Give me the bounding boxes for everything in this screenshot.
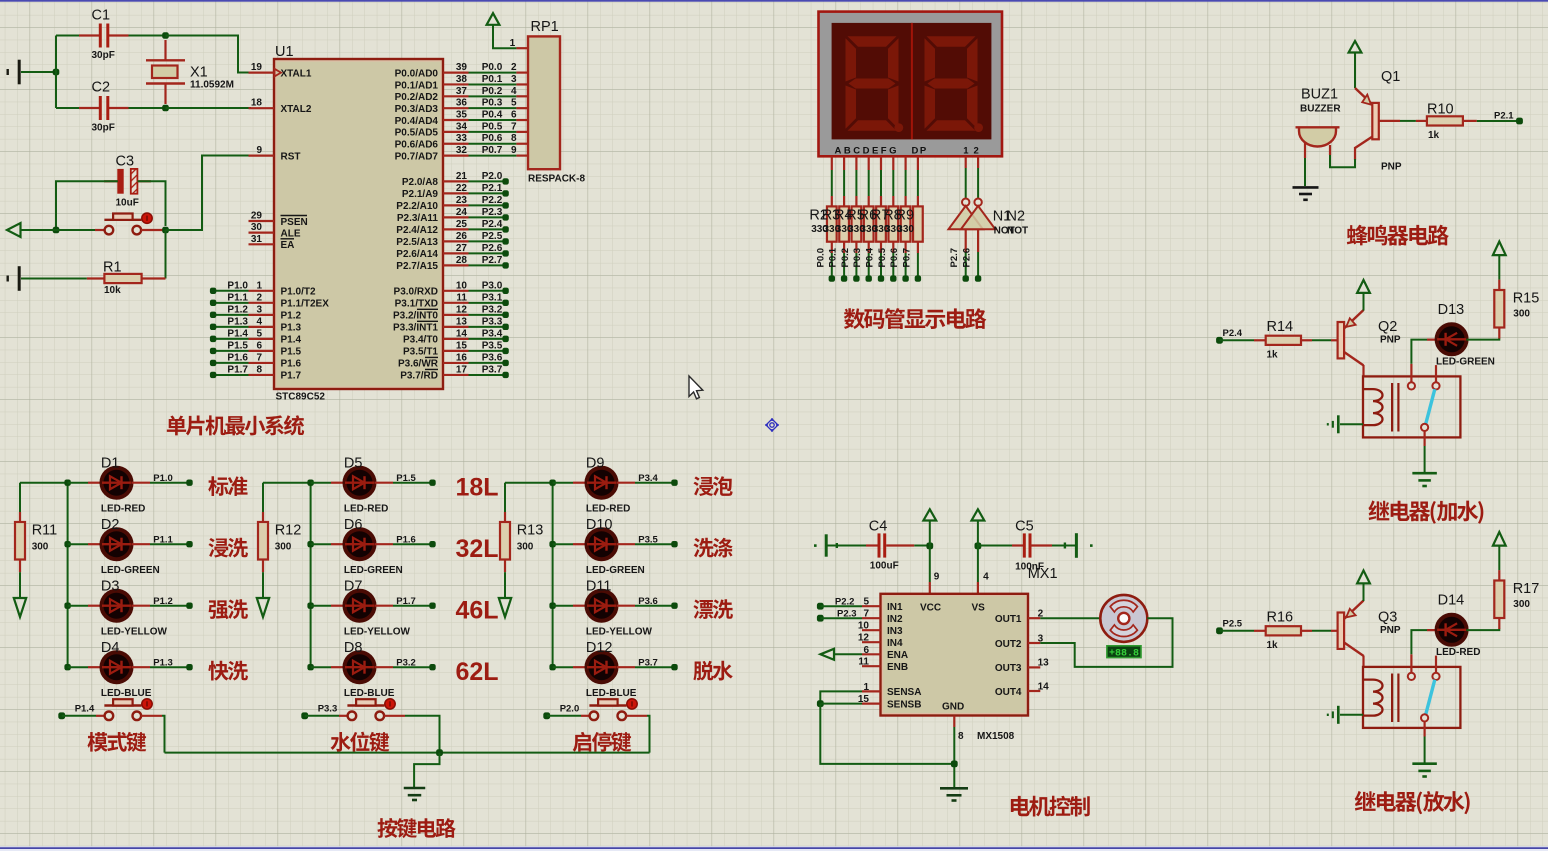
- display right digit: [925, 36, 978, 131]
- wire (net P3.7): [469, 374, 506, 376]
- svg-text:PSEN: PSEN: [281, 217, 308, 228]
- svg-text:P1.2: P1.2: [227, 304, 248, 315]
- wire (net P3.6): [469, 362, 506, 364]
- wire: [21, 71, 56, 73]
- wire: [1312, 630, 1331, 632]
- svg-text:P0.1: P0.1: [828, 247, 839, 267]
- junction (net P2.2): [817, 603, 824, 610]
- svg-text:5: 5: [863, 597, 869, 608]
- svg-text:9: 9: [256, 145, 262, 156]
- svg-text:15: 15: [456, 340, 468, 351]
- junction: [162, 32, 169, 39]
- svg-text:4: 4: [983, 572, 989, 583]
- power arrow (LED cathode rail, down): [257, 598, 269, 617]
- U1 pin 18 XTAL2: [249, 107, 275, 109]
- U1 pin 13 P3.3/INT1: [443, 326, 469, 328]
- U1 pin 37 P0.2/AD2: [443, 95, 469, 97]
- svg-text:P1.6: P1.6: [396, 534, 416, 545]
- label 强洗: [209, 599, 248, 619]
- svg-text:P1.6: P1.6: [281, 359, 302, 370]
- wire (net P2.4): [469, 228, 506, 230]
- svg-text:P2.2: P2.2: [482, 195, 503, 206]
- junction (net P3.0 end): [502, 288, 508, 294]
- U1 pin 9 RST: [249, 155, 275, 157]
- U1 pin 22 P2.1/A9: [443, 192, 469, 194]
- svg-text:Q1: Q1: [1381, 69, 1400, 85]
- svg-text:1: 1: [510, 38, 516, 49]
- junction (net P3.4 end): [502, 336, 508, 342]
- svg-text:P3.5: P3.5: [482, 340, 503, 351]
- svg-text:300: 300: [517, 542, 534, 553]
- wire: [1477, 120, 1520, 122]
- svg-text:P2.3/A11: P2.3/A11: [397, 213, 439, 224]
- svg-text:8: 8: [511, 133, 517, 144]
- display digit pin wire: [977, 156, 979, 168]
- junction (segment net end): [853, 275, 859, 281]
- svg-text:D11: D11: [586, 579, 612, 595]
- svg-text:P0.1/AD1: P0.1/AD1: [395, 80, 439, 91]
- wire: [405, 716, 440, 753]
- junction (segment net end): [878, 275, 884, 281]
- MX1508 pin 12 IN4: [862, 641, 881, 643]
- wire: [129, 107, 166, 109]
- ground (button rail): [404, 788, 426, 800]
- wire: [635, 543, 675, 545]
- svg-text:C1: C1: [92, 8, 111, 24]
- RP1 pin 1: [516, 47, 528, 49]
- wire: [311, 482, 331, 484]
- label 脱水: [693, 661, 732, 681]
- svg-text:ENB: ENB: [887, 662, 908, 673]
- svg-text:1: 1: [863, 682, 869, 693]
- svg-text:C4: C4: [869, 519, 888, 535]
- wire: [635, 666, 675, 668]
- mcu U1 STC89C52 body: [274, 59, 443, 389]
- wire: [68, 482, 88, 484]
- svg-text:P0.5: P0.5: [877, 247, 888, 267]
- wire: [62, 715, 96, 717]
- wire: [1354, 53, 1356, 89]
- svg-text:4: 4: [511, 86, 517, 97]
- svg-text:IN2: IN2: [887, 614, 903, 625]
- relay coil: [1363, 389, 1383, 425]
- relay pole terminal: [1421, 424, 1428, 431]
- wire: [20, 482, 68, 484]
- U1 pin 19 XTAL1: [249, 71, 275, 73]
- svg-text:RST: RST: [281, 151, 301, 162]
- svg-text:5: 5: [511, 98, 517, 109]
- svg-text:P3.3/INT1: P3.3/INT1: [393, 323, 438, 334]
- svg-text:34: 34: [456, 121, 468, 132]
- wire (net P3.5): [469, 350, 506, 352]
- resistor R16 (1k): [1254, 630, 1266, 632]
- svg-text:RP1: RP1: [531, 19, 559, 35]
- power arrow (LED cathode rail, down): [499, 598, 511, 617]
- svg-text:7: 7: [863, 609, 869, 620]
- U1 pin 7 P1.6: [249, 362, 275, 364]
- junction (net P2.6 end): [502, 250, 508, 256]
- junction (net P3.2 end): [429, 664, 435, 670]
- resistor R8 (330): [904, 196, 906, 206]
- svg-text:38: 38: [456, 74, 468, 85]
- wire: [19, 572, 21, 597]
- caption 蜂鸣器电路: [1347, 225, 1449, 246]
- svg-text:12: 12: [456, 304, 468, 315]
- label 启停键: [573, 732, 632, 752]
- svg-text:3: 3: [256, 304, 262, 315]
- relay core: [1391, 674, 1393, 723]
- led D4 (LED-BLUE): [88, 666, 102, 668]
- svg-text:32L: 32L: [456, 535, 499, 563]
- svg-text:BUZZER: BUZZER: [1300, 104, 1341, 115]
- wire: [1466, 629, 1499, 631]
- wire: [820, 605, 862, 607]
- wire (SENSB): [820, 703, 862, 705]
- svg-text:P1.4: P1.4: [227, 328, 248, 339]
- wire (net P0.6): [469, 143, 517, 145]
- wire (net P3.4): [469, 338, 506, 340]
- caption 继电器(放水): [1355, 791, 1470, 814]
- svg-text:6: 6: [863, 645, 869, 656]
- wire: [855, 253, 857, 279]
- svg-text:9: 9: [511, 145, 517, 156]
- U1 pin 31 EA: [249, 243, 275, 245]
- display segment pin wire: [843, 156, 845, 170]
- display right decimal point: [974, 123, 983, 132]
- motor speed display: [1107, 646, 1141, 658]
- svg-text:P3.4/T0: P3.4/T0: [403, 335, 438, 346]
- resistor R12 (300): [262, 483, 264, 512]
- svg-text:P0.7: P0.7: [901, 248, 912, 268]
- svg-text:SENSB: SENSB: [887, 699, 921, 710]
- svg-text:32: 32: [456, 145, 468, 156]
- motor MX1: [1040, 617, 1100, 619]
- led D14 (LED-RED): [1427, 629, 1466, 631]
- svg-text:P1.1: P1.1: [227, 292, 248, 303]
- junction (net P1.0 end): [210, 288, 216, 294]
- wire: [843, 253, 845, 279]
- U1 pin 23 P2.2/A10: [443, 204, 469, 206]
- junction: [549, 664, 555, 670]
- svg-text:P1.7: P1.7: [227, 364, 248, 375]
- 7-segment display body: [819, 12, 1003, 157]
- svg-text:7: 7: [256, 352, 262, 363]
- wire: [965, 229, 967, 252]
- ground (buzzer): [1293, 187, 1319, 199]
- MX1508 pin 14 OUT4: [1028, 690, 1040, 692]
- ground (relay coil): [1328, 415, 1339, 433]
- svg-text:30pF: 30pF: [92, 123, 115, 134]
- wire: [547, 715, 581, 717]
- wire (button common rail): [165, 752, 650, 754]
- resistor R9 (330): [917, 196, 919, 206]
- U1 pin 25 P2.4/A12: [443, 228, 469, 230]
- input arrow (ENA): [820, 649, 834, 660]
- svg-text:18: 18: [251, 98, 263, 109]
- svg-text:P3.4: P3.4: [482, 328, 503, 339]
- svg-text:+88.8: +88.8: [1109, 648, 1139, 659]
- svg-text:P3.3: P3.3: [318, 704, 338, 715]
- MX1508 pin 15 SENSB: [862, 702, 881, 704]
- wire (net P2.3): [469, 216, 506, 218]
- svg-text:1: 1: [256, 280, 262, 291]
- junction (net P2.4 end): [502, 226, 508, 232]
- svg-text:P3.0: P3.0: [482, 280, 503, 291]
- svg-text:R9: R9: [896, 208, 915, 224]
- U1 pin 26 P2.5/A13: [443, 240, 469, 242]
- svg-text:17: 17: [456, 364, 468, 375]
- svg-text:35: 35: [456, 110, 468, 121]
- svg-text:23: 23: [456, 195, 468, 206]
- junction: [549, 480, 555, 486]
- resistor R7 (330): [892, 196, 894, 206]
- U1 pin 24 P2.3/A11: [443, 216, 469, 218]
- svg-text:IN1: IN1: [887, 602, 903, 613]
- svg-text:R14: R14: [1267, 319, 1294, 335]
- svg-text:24: 24: [456, 207, 468, 218]
- svg-text:P0.0: P0.0: [815, 248, 826, 268]
- svg-text:36: 36: [456, 98, 468, 109]
- svg-text:D4: D4: [101, 640, 120, 656]
- svg-text:300: 300: [1513, 309, 1530, 320]
- svg-text:P0.1: P0.1: [482, 74, 503, 85]
- svg-text:LED-BLUE: LED-BLUE: [101, 688, 152, 699]
- svg-text:P2.7/A15: P2.7/A15: [396, 261, 438, 272]
- U1 pin 34 P0.5/AD5: [443, 131, 469, 133]
- wire: [166, 156, 250, 231]
- svg-text:MX1: MX1: [1028, 566, 1058, 582]
- U1 pin 11 P3.1/TXD: [443, 302, 469, 304]
- svg-text:10: 10: [456, 280, 468, 291]
- wire (VS pin): [977, 546, 979, 583]
- wire: [150, 666, 190, 668]
- transistor Q2 (PNP): [1338, 322, 1345, 358]
- junction (net P3.5 end): [502, 348, 508, 354]
- U1 pin 39 P0.0/AD0: [443, 71, 469, 73]
- label 浸泡: [693, 476, 732, 496]
- caption 单片机最小系统: [167, 415, 304, 435]
- display segment pin wire: [904, 156, 906, 170]
- svg-text:GND: GND: [942, 701, 964, 712]
- junction (net P1.1 end): [186, 541, 192, 547]
- wire: [311, 543, 331, 545]
- wire: [56, 181, 118, 230]
- ground (MX1508): [940, 788, 968, 800]
- svg-text:P1.3: P1.3: [281, 323, 302, 334]
- svg-text:PNP: PNP: [1380, 335, 1401, 346]
- U1 pin 32 P0.7/AD7: [443, 154, 469, 156]
- led D9 (LED-RED): [573, 482, 587, 484]
- svg-text:C5: C5: [1015, 519, 1034, 535]
- svg-text:P1.4: P1.4: [281, 335, 302, 346]
- wire: [165, 230, 167, 279]
- svg-text:XTAL2: XTAL2: [281, 104, 312, 115]
- wire: [880, 253, 882, 279]
- svg-text:DP: DP: [912, 146, 928, 157]
- svg-text:VS: VS: [972, 602, 986, 613]
- wire: [929, 521, 931, 546]
- wire: [917, 253, 919, 279]
- junction (net P1.3 end): [186, 664, 192, 670]
- svg-text:P1.1/T2EX: P1.1/T2EX: [281, 299, 330, 310]
- svg-text:P0.7: P0.7: [482, 145, 503, 156]
- MX1508 pin 2 OUT1: [1028, 617, 1040, 619]
- svg-text:1k: 1k: [1267, 640, 1279, 651]
- wire: [166, 107, 252, 109]
- junction (net P3.2 end): [502, 312, 508, 318]
- power arrow (LED cathode rail, down): [14, 598, 26, 617]
- junction (segment net end): [829, 275, 835, 281]
- junction (net P2.3): [817, 615, 824, 622]
- resistor R3 (330): [843, 196, 845, 206]
- svg-text:P0.6: P0.6: [889, 248, 900, 268]
- junction: [307, 480, 313, 486]
- MX1508 pin 7 IN2: [862, 617, 881, 619]
- svg-text:SENSA: SENSA: [887, 687, 921, 698]
- svg-text:NOT: NOT: [1007, 226, 1028, 237]
- svg-text:P1.5: P1.5: [396, 473, 416, 484]
- caption 电机控制: [1011, 796, 1090, 817]
- junction (net P2.4): [1216, 337, 1223, 344]
- junction (net P2.1): [1516, 118, 1523, 125]
- wire (net P2.7): [469, 264, 506, 266]
- junction (segment net end): [902, 275, 908, 281]
- svg-text:P3.6: P3.6: [638, 596, 658, 607]
- U1 pin 8 P1.7: [249, 374, 275, 376]
- svg-text:LED-GREEN: LED-GREEN: [344, 565, 403, 576]
- U1 pin 28 P2.7/A15: [443, 264, 469, 266]
- svg-text:Q3: Q3: [1378, 610, 1397, 626]
- wire: [138, 181, 166, 226]
- power arrow (Q3 emitter supply): [1357, 571, 1370, 584]
- svg-text:P3.5: P3.5: [638, 534, 658, 545]
- display segment pin wire: [868, 156, 870, 170]
- svg-text:P0.4: P0.4: [482, 110, 503, 121]
- wire (net P0.0): [469, 72, 517, 74]
- svg-text:8: 8: [958, 731, 964, 742]
- junction: [549, 541, 555, 547]
- crystal X1: [164, 40, 166, 60]
- junction (segment net end): [915, 275, 921, 281]
- wire: [56, 35, 79, 37]
- relay contact (right): [1435, 656, 1437, 673]
- svg-text:R12: R12: [275, 523, 302, 539]
- wire: [1363, 293, 1365, 311]
- wire: [311, 605, 331, 607]
- wire: [831, 253, 833, 279]
- junction (net P1.2 end): [186, 603, 192, 609]
- junction (net P2.2 end): [502, 202, 508, 208]
- resistor R6 (330): [880, 196, 882, 206]
- U1 pin 21 P2.0/A8: [443, 180, 469, 182]
- capacitor C2: [79, 107, 100, 109]
- junction: [975, 543, 982, 550]
- svg-text:OUT2: OUT2: [995, 639, 1022, 650]
- wire (net P1.2): [213, 314, 248, 316]
- svg-text:8: 8: [256, 364, 262, 375]
- junction (net P3.6 end): [502, 360, 508, 366]
- svg-text:P3.2: P3.2: [482, 304, 503, 315]
- junction: [64, 603, 70, 609]
- U1 pin 4 P1.3: [249, 326, 275, 328]
- wire: [1040, 618, 1172, 667]
- caption 按键电路: [377, 818, 455, 838]
- wire: [393, 482, 433, 484]
- svg-text:LED-RED: LED-RED: [1436, 647, 1480, 658]
- wire (net P0.4): [469, 119, 517, 121]
- resistor pack RP1 body: [528, 36, 560, 169]
- U1 pin 36 P0.3/AD3: [443, 107, 469, 109]
- wire: [834, 653, 862, 655]
- junction (net P1.1 end): [210, 300, 216, 306]
- svg-text:D14: D14: [1438, 592, 1465, 608]
- wire: [262, 572, 264, 597]
- wire (VCC pin): [929, 546, 931, 583]
- svg-text:P2.4/A12: P2.4/A12: [396, 225, 438, 236]
- led D3 (LED-YELLOW): [88, 605, 102, 607]
- svg-text:P1.1: P1.1: [153, 534, 173, 545]
- svg-text:P2.1/A9: P2.1/A9: [402, 189, 439, 200]
- svg-text:P0.6: P0.6: [482, 133, 503, 144]
- junction (net P1.5 end): [210, 348, 216, 354]
- ground (C4): [826, 534, 837, 556]
- wire: [553, 482, 573, 484]
- XTAL1 clock marker: [275, 69, 282, 77]
- svg-text:Q2: Q2: [1378, 319, 1397, 335]
- junction (net P1.0 end): [186, 480, 192, 486]
- wire: [150, 605, 190, 607]
- power arrow (VS): [972, 509, 985, 520]
- svg-text:62L: 62L: [456, 658, 499, 686]
- junction (net P2.5): [1216, 627, 1223, 634]
- wire: [162, 716, 165, 753]
- svg-text:27: 27: [456, 243, 468, 254]
- junction (net P1.4 end): [210, 336, 216, 342]
- svg-text:R11: R11: [32, 523, 58, 539]
- power arrow (VCC): [923, 509, 936, 520]
- led D10 (LED-GREEN): [573, 543, 587, 545]
- window bottom border: [0, 846, 1548, 847]
- svg-text:D6: D6: [344, 517, 363, 533]
- svg-text:10uF: 10uF: [116, 198, 139, 209]
- svg-text:P2.1: P2.1: [1494, 110, 1514, 121]
- mouse cursor: [689, 376, 703, 399]
- svg-text:P0.5: P0.5: [482, 121, 503, 132]
- relay contact (right): [1435, 365, 1437, 382]
- ground (C5): [1065, 533, 1077, 558]
- led D1 (LED-RED): [88, 482, 102, 484]
- wire: [1220, 630, 1255, 632]
- svg-text:P3.4: P3.4: [638, 473, 658, 484]
- wire: [414, 753, 439, 787]
- svg-text:P1.2: P1.2: [153, 596, 173, 607]
- power arrow (buzzer supply): [1349, 41, 1362, 53]
- wire: [1220, 339, 1255, 341]
- wire: [868, 253, 870, 279]
- resistor R10 (1k): [1416, 120, 1427, 122]
- svg-text:P3.0/RXD: P3.0/RXD: [394, 287, 438, 298]
- display left decimal point: [894, 123, 903, 132]
- capacitor C4 (100uF): [866, 544, 878, 546]
- svg-text:STC89C52: STC89C52: [276, 392, 326, 403]
- svg-text:P0.5/AD5: P0.5/AD5: [395, 128, 439, 139]
- wire: [129, 35, 166, 37]
- svg-text:11: 11: [456, 292, 467, 303]
- wire (net P1.1): [213, 302, 248, 304]
- svg-text:P2.5: P2.5: [482, 231, 503, 242]
- svg-text:9: 9: [934, 572, 940, 583]
- svg-text:IN3: IN3: [887, 626, 903, 637]
